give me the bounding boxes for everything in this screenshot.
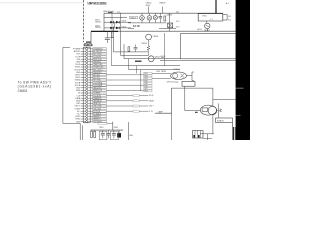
wire bold stub <box>135 60 142 62</box>
wire row 11 to right <box>106 74 143 76</box>
net label box pin 12 <box>93 76 107 78</box>
wire white over mask 2 <box>236 114 241 116</box>
wire mesh h4 <box>111 65 180 67</box>
varistor ZNR8002 <box>148 13 150 15</box>
wire R8003 drop <box>162 7 164 14</box>
svg-text:(GEA1E9B1-xxA): (GEA1E9B1-xxA) <box>18 85 52 89</box>
net label box pin 18 <box>93 92 107 94</box>
wire power block left drop <box>171 113 173 140</box>
svg-text:GND: GND <box>76 121 81 123</box>
relay RL8001 <box>168 23 173 28</box>
pin 2 CN8101 <box>86 50 88 52</box>
capacitor C8003 <box>159 13 161 16</box>
svg-text:DATA: DATA <box>75 97 80 100</box>
pin 11 CN8101 <box>86 74 88 76</box>
wire pin 3 right stub <box>88 53 93 55</box>
net label box pin 15 <box>93 84 107 86</box>
svg-text:ACDET: ACDET <box>74 50 81 53</box>
svg-text:PWL TRNS: PWL TRNS <box>156 71 166 73</box>
net label box pin 10 <box>93 71 107 73</box>
transistor Q8101 <box>146 34 152 40</box>
net label box pin 26 <box>93 113 107 115</box>
PWB boundary dashed line <box>83 0 85 42</box>
box bottom small 2 <box>111 131 119 140</box>
wire pin 4 right stub <box>88 56 93 58</box>
pin 24 CN8101 <box>86 108 88 110</box>
wire pin 8 left stub <box>81 66 86 68</box>
wire row 13 to right <box>106 79 143 81</box>
svg-text:GFCI (Driving): GFCI (Driving) <box>167 82 179 84</box>
pin 3 CN8101 <box>86 53 88 55</box>
wire pin 16 left stub <box>81 87 86 89</box>
wire pin 21 left stub <box>81 100 86 102</box>
svg-text:CN801: CN801 <box>18 89 28 93</box>
connector CN8101 body <box>82 47 84 123</box>
wire pin 19 right stub <box>88 95 93 97</box>
pin 21 CN8101 <box>86 100 88 102</box>
diode D8001 <box>110 21 113 24</box>
svg-text:HEATER 1: HEATER 1 <box>93 115 101 118</box>
net box column2 row 1 <box>144 72 152 74</box>
svg-text:PW2: PW2 <box>144 76 148 78</box>
wire label col drop 2 <box>140 70 142 91</box>
svg-text:C8301: C8301 <box>99 127 104 129</box>
wire pin 25 right stub <box>88 110 93 112</box>
wire pin 5 left stub <box>81 58 86 60</box>
wire diode center join <box>114 22 116 28</box>
net label box pin 22 <box>93 102 107 104</box>
net label box pin 7 <box>93 63 107 65</box>
net label box pin 20 <box>93 97 107 99</box>
svg-text:PW6: PW6 <box>144 86 148 88</box>
wire pin 4 left stub <box>81 56 86 58</box>
wire pin 20 right stub <box>88 97 93 99</box>
pin 17 CN8101 <box>86 89 88 91</box>
diode D8004 <box>116 27 119 30</box>
wire row 25 to right <box>106 110 148 112</box>
svg-text:C-1: C-1 <box>210 19 213 21</box>
wire row 15 to right <box>106 84 143 86</box>
wire pin 6 left stub <box>81 61 86 63</box>
varistor ZNR8001 <box>141 13 143 15</box>
wire mesh h1 <box>114 51 149 53</box>
wire return line to right <box>118 30 236 32</box>
svg-text:PW8: PW8 <box>144 91 148 93</box>
fuse F8002 body <box>89 44 92 46</box>
wire diode row 1 <box>104 21 131 23</box>
wire row 19 to right <box>106 95 148 97</box>
wire mesh h5 <box>129 69 180 71</box>
transformer T801 box <box>198 14 223 21</box>
wire pin 7 right stub <box>88 63 93 65</box>
net label box pin 9 <box>93 69 107 71</box>
svg-text:C8106: C8106 <box>153 36 159 38</box>
pin 22 CN8101 <box>86 102 88 104</box>
wire pin 18 right stub <box>88 92 93 94</box>
svg-text:D8003: D8003 <box>95 25 100 27</box>
wire pin 23 left stub <box>81 105 86 107</box>
wire mesh h2 <box>121 55 148 57</box>
pin 26 CN8101 <box>86 113 88 115</box>
wire below connector to vertical <box>107 122 113 124</box>
net label box pin 16 <box>93 87 107 89</box>
wire fuse drop <box>90 31 92 42</box>
wire driver drop <box>184 86 186 110</box>
pin 8 CN8101 <box>86 66 88 68</box>
pin 23 CN8101 <box>86 105 88 107</box>
noise filter NF801 <box>205 23 210 28</box>
wire pin 19 left stub <box>81 95 86 97</box>
wire power block right edge top <box>212 88 214 105</box>
svg-text:2.2u: 2.2u <box>117 11 120 13</box>
net box column2 row 4 <box>144 80 152 82</box>
capacitor C8301 <box>102 130 104 133</box>
pin 9 CN8101 <box>86 69 88 71</box>
wire pin 2 left stub <box>81 50 86 52</box>
wire right bracket <box>217 103 219 117</box>
net label box pin 4 <box>93 56 107 58</box>
motor M8101 <box>200 105 216 115</box>
wire pin 9 right stub <box>88 69 93 71</box>
wire pin 1 right stub <box>88 48 93 50</box>
wire pin 8 right stub <box>88 66 93 68</box>
wire filter low line left <box>128 27 134 29</box>
svg-text:R8105: R8105 <box>142 43 147 45</box>
wire left drop <box>103 13 105 31</box>
wire row 21 to right <box>106 100 148 102</box>
svg-text:MAIN PWB GGG10B0SS: MAIN PWB GGG10B0SS <box>87 2 107 6</box>
pin 19 CN8101 <box>86 95 88 97</box>
wire pin 28 right stub <box>88 118 93 120</box>
wire pin 11 left stub <box>81 74 86 76</box>
wire power block right edge bottom <box>212 115 214 134</box>
svg-text:PW5: PW5 <box>144 83 148 85</box>
svg-text:R-1: R-1 <box>228 16 231 18</box>
svg-text:B-1: B-1 <box>176 11 179 13</box>
wire under box <box>160 60 236 62</box>
wire pin 25 left stub <box>81 110 86 112</box>
capacitor C8302 <box>113 130 115 133</box>
wire pin 26 left stub <box>81 113 86 115</box>
wire pin 2 right stub <box>88 50 93 52</box>
inline net box row 19 <box>133 95 139 97</box>
wire pin 22 left stub <box>81 102 86 104</box>
resistor R8101 <box>128 47 130 52</box>
net label box below connector <box>98 122 107 124</box>
wire pc right bracket <box>186 72 192 81</box>
svg-text:A-1: A-1 <box>226 2 229 5</box>
svg-text:PW7: PW7 <box>144 88 148 90</box>
wire pc top <box>152 72 171 74</box>
pin 29 CN8101 <box>86 121 88 123</box>
wire right mid vertical <box>164 33 166 66</box>
wire pin 17 right stub <box>88 89 93 91</box>
wire below RGB <box>232 123 234 141</box>
capacitor C8101 <box>106 31 108 37</box>
net box column2 row 5 <box>144 82 152 84</box>
wire pc bottom <box>152 77 171 79</box>
net label box pin 13 <box>93 79 107 81</box>
wire mesh v4 <box>110 31 112 65</box>
wire right drop <box>127 122 129 140</box>
wire pin 27 left stub <box>81 115 86 117</box>
svg-text:400V: 400V <box>146 5 151 7</box>
wire pin 14 right stub <box>88 82 93 84</box>
box driver <box>182 81 195 86</box>
net label box pin 6 <box>93 61 107 63</box>
wire AC bus top <box>104 12 223 14</box>
net label box pin 3 <box>93 53 107 55</box>
svg-text:AC-N: AC-N <box>198 28 203 31</box>
wire left bus corner <box>63 47 80 123</box>
wire pin 10 left stub <box>81 71 86 73</box>
svg-text:AC DET(H): AC DET(H) <box>93 50 102 53</box>
wire heavy return line <box>91 30 118 32</box>
resistor R8301 <box>91 130 93 131</box>
capacitor C8304 <box>107 130 109 133</box>
varistor ZNR8003 <box>154 13 156 15</box>
net label box pin 2 <box>93 50 107 52</box>
net label box pin 25 <box>93 110 107 112</box>
svg-text:SCL(B: SCL(B <box>149 95 154 97</box>
capacitor C8303 electrolytic <box>117 133 121 137</box>
coil symbol <box>219 109 221 112</box>
wire pin 12 left stub <box>81 76 86 78</box>
pin 1 CN8101 <box>86 48 88 50</box>
wire mesh v3 <box>123 44 125 59</box>
wire pin 15 right stub <box>88 84 93 86</box>
svg-text:HEATER 2: HEATER 2 <box>93 118 101 121</box>
svg-text:RGB IN: RGB IN <box>217 120 224 122</box>
wire pin 9 left stub <box>81 69 86 71</box>
wire mesh v1 <box>113 28 115 52</box>
wire mesh v5 <box>128 59 130 70</box>
svg-text:1SS133: 1SS133 <box>95 22 101 24</box>
wire row 23 to right <box>106 105 148 107</box>
wire bottom bus <box>91 129 124 131</box>
net box column2 row 8 <box>144 90 152 92</box>
net label box pin 14 <box>93 82 107 84</box>
fuse F8001 bar <box>86 41 91 43</box>
wire pin 24 left stub <box>81 108 86 110</box>
wire motor feed <box>185 110 201 112</box>
wire diode row 2 <box>104 27 131 29</box>
transformer aux box <box>223 15 227 20</box>
wire pin 10 right stub <box>88 71 93 73</box>
svg-text:CN8101: CN8101 <box>83 45 93 47</box>
wire pin 27 right stub <box>88 115 93 117</box>
pin 13 CN8101 <box>86 79 88 81</box>
pin 16 CN8101 <box>86 87 88 89</box>
wire pin 5 right stub <box>88 58 93 60</box>
resistor R8302 <box>94 130 96 131</box>
svg-text:D8001: D8001 <box>95 20 100 22</box>
net box column2 row 6 <box>144 85 152 87</box>
net label box pin 5 <box>93 58 107 60</box>
pin 10 CN8101 <box>86 71 88 73</box>
wire pin 15 left stub <box>81 84 86 86</box>
wire mains entry thick <box>215 0 217 14</box>
box RGB input <box>216 118 233 123</box>
connector CN8301 <box>193 131 204 139</box>
wire bottom right stub <box>203 137 212 139</box>
net label box pin 8 <box>93 66 107 68</box>
wire pin 24 right stub <box>88 108 93 110</box>
pin 6 CN8101 <box>86 61 88 63</box>
wire mesh h3 <box>124 58 180 60</box>
wire pin 16 right stub <box>88 87 93 89</box>
pin 25 CN8101 <box>86 110 88 112</box>
net box column2 row 3 <box>144 77 152 79</box>
wire to Q8102 <box>148 50 150 56</box>
svg-text:PC8101: PC8101 <box>174 69 181 71</box>
diode D8003 <box>110 27 113 30</box>
wire pin 20 left stub <box>81 97 86 99</box>
svg-text:B-3: B-3 <box>176 27 179 29</box>
wire second AC line <box>104 17 127 19</box>
svg-text:PW1: PW1 <box>144 73 148 75</box>
label motor feed tick <box>195 111 198 113</box>
pin 15 CN8101 <box>86 84 88 86</box>
net box column2 row 2 <box>144 75 152 77</box>
wire pin 3 left stub <box>81 53 86 55</box>
wire pin 13 right stub <box>88 79 93 81</box>
net label box pin 27 <box>93 115 107 117</box>
svg-text:Q8001: Q8001 <box>166 14 173 16</box>
wire boundary drop 1 <box>79 123 81 140</box>
capacitor C8102 <box>111 13 113 37</box>
wire bus feed vertical <box>112 122 114 131</box>
inductor L8001 <box>108 11 113 13</box>
net label box pin 1 <box>93 48 107 50</box>
wire NF bottom <box>206 29 208 32</box>
wire pin 22 right stub <box>88 102 93 104</box>
wire pin 7 left stub <box>81 63 86 65</box>
svg-text:C8001: C8001 <box>130 17 136 19</box>
wire pin 29 left stub <box>81 121 86 123</box>
wire bottom right v <box>206 134 208 140</box>
box power block outline <box>155 88 213 113</box>
pin 5 CN8101 <box>86 58 88 60</box>
svg-text:B-2: B-2 <box>176 21 179 23</box>
wire row 17 to right <box>106 89 143 91</box>
svg-text:NF801: NF801 <box>204 30 210 32</box>
pin 27 CN8101 <box>86 115 88 117</box>
wire relay drop <box>169 13 171 31</box>
pin 20 CN8101 <box>86 97 88 99</box>
wire white over mask 1 <box>236 87 244 89</box>
svg-text:GND(B: GND(B <box>149 100 154 102</box>
net label box pin 21 <box>93 100 107 102</box>
svg-text:R-2: R-2 <box>228 19 231 21</box>
svg-text:T801: T801 <box>202 16 206 18</box>
black mask right <box>236 0 250 140</box>
capacitor C8104 <box>135 45 137 48</box>
faint top rule <box>0 2 83 4</box>
resistor R8004 <box>164 16 166 21</box>
svg-text:PW3: PW3 <box>144 78 148 80</box>
pin 28 CN8101 <box>86 118 88 120</box>
wire pin 23 right stub <box>88 105 93 107</box>
net label box pin 11 <box>93 74 107 76</box>
svg-text:To SW PWB ASS'Y: To SW PWB ASS'Y <box>18 80 52 84</box>
wire pin 1 left stub <box>81 48 86 50</box>
svg-text:PW4: PW4 <box>144 81 148 83</box>
svg-text:JOG A: JOG A <box>75 81 81 84</box>
wire bottom right h <box>200 133 214 135</box>
pin 12 CN8101 <box>86 76 88 78</box>
wire pin 11 right stub <box>88 74 93 76</box>
wire NF drop <box>206 21 208 23</box>
net label box pin 28 <box>93 118 107 120</box>
svg-text:LAMP: LAMP <box>158 110 164 113</box>
pin 4 CN8101 <box>86 56 88 58</box>
svg-text:R8003: R8003 <box>160 3 167 5</box>
wire boundary drop 2 <box>81 125 83 140</box>
wire pin 29 right stub <box>88 121 93 123</box>
wire Q8101 emitter <box>148 40 150 46</box>
resistor R8106 zigzag <box>147 46 150 51</box>
net box column2 row 7 <box>144 87 152 89</box>
box bottom small 1 <box>99 131 107 140</box>
wire C8002 drop <box>148 7 150 14</box>
pin 7 CN8101 <box>86 63 88 65</box>
pin 14 CN8101 <box>86 82 88 84</box>
svg-text:JOG PHA B: JOG PHA B <box>93 84 103 87</box>
net label box pin 19 <box>93 95 107 97</box>
svg-text:C8303: C8303 <box>114 127 119 129</box>
svg-text:AC IN: AC IN <box>133 25 140 28</box>
svg-text:1SS133: 1SS133 <box>95 27 101 29</box>
label C8001 boxed <box>130 16 138 19</box>
transistor Q8102 <box>148 56 154 62</box>
wire filter mid line <box>128 22 167 24</box>
wire pin 14 left stub <box>81 82 86 84</box>
wire top right branch <box>213 98 236 100</box>
diode D8002 <box>116 21 119 24</box>
wire pin 6 right stub <box>88 61 93 63</box>
fuse F8001 body <box>85 44 88 46</box>
wire filter low line right <box>159 27 176 29</box>
wire motor right <box>217 110 219 112</box>
wire pin 17 left stub <box>81 89 86 91</box>
svg-text:FL PL: FL PL <box>149 111 153 113</box>
net label box pin 17 <box>93 89 107 91</box>
wire pin 21 right stub <box>88 100 93 102</box>
wire pin 28 left stub <box>81 118 86 120</box>
wire label col drop 1 <box>136 66 138 74</box>
pin 18 CN8101 <box>86 92 88 94</box>
wire pin 13 left stub <box>81 79 86 81</box>
inline net box row 23 <box>133 105 139 107</box>
wire pin 12 right stub <box>88 76 93 78</box>
svg-text:JOG PHA A: JOG PHA A <box>93 81 103 84</box>
net label box pin 29 <box>93 121 107 123</box>
net label box pin 23 <box>93 105 107 107</box>
black mask step bottom <box>233 127 235 140</box>
box main area <box>180 34 236 59</box>
wire pin 26 right stub <box>88 113 93 115</box>
inline net box row 21 <box>133 100 139 102</box>
photocoupler PC8101 <box>171 72 187 79</box>
wire T801 left drop <box>197 14 199 21</box>
wire pin 18 left stub <box>81 92 86 94</box>
svg-text:SDA(BUS): SDA(BUS) <box>93 97 102 100</box>
wire mesh v2 <box>120 13 122 55</box>
inline net box row 25 <box>133 110 139 112</box>
net label box pin 24 <box>93 108 107 110</box>
